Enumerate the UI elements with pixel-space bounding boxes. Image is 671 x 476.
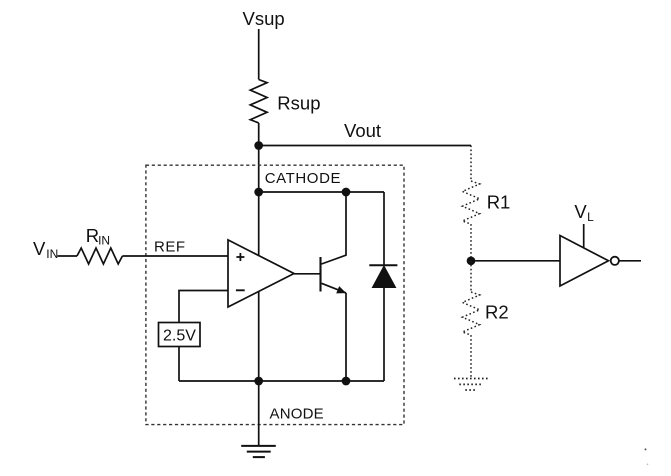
voltage reference 2.5V <box>159 323 201 347</box>
node collector junction <box>342 188 351 197</box>
resistor Rsup <box>250 80 267 123</box>
svg-text:ANODE: ANODE <box>270 405 324 422</box>
wire divider node to inverter input <box>471 260 560 262</box>
net label VIN <box>33 238 58 261</box>
svg-text:IN: IN <box>46 247 58 261</box>
svg-text:Vout: Vout <box>344 120 381 141</box>
wire divider node to R2 (dotted) <box>470 261 472 292</box>
svg-text:V: V <box>33 238 46 259</box>
resistor RIN <box>77 248 122 264</box>
wire VL to inverter <box>583 224 585 248</box>
svg-text:Vsup: Vsup <box>243 8 285 29</box>
wire 2.5V to anode rail <box>178 347 180 382</box>
ground <box>241 446 276 457</box>
svg-text:V: V <box>574 201 587 222</box>
wire VIN to RIN <box>58 255 78 257</box>
resistor R2 (dotted) <box>462 292 479 335</box>
svg-text:Rsup: Rsup <box>277 93 320 114</box>
label RIN <box>86 225 110 247</box>
speck artifact 2 <box>647 464 649 466</box>
wire inverting input <box>179 291 228 323</box>
wire anode to ground <box>258 381 260 446</box>
svg-text:CATHODE: CATHODE <box>265 170 341 187</box>
node anode junction <box>254 377 263 386</box>
ground (dotted) <box>454 379 490 391</box>
node emitter junction <box>342 377 351 386</box>
wire op-amp output to base <box>294 273 321 275</box>
wire diode top lead <box>383 192 385 265</box>
inverter U2 <box>560 236 619 287</box>
transistor Q1 <box>321 192 347 381</box>
svg-text:REF: REF <box>154 239 186 256</box>
node divider junction <box>467 256 476 265</box>
node cathode junction <box>254 188 263 197</box>
svg-text:R1: R1 <box>487 191 511 212</box>
diode D1 <box>369 265 397 381</box>
wire Vsup to Rsup <box>258 29 260 80</box>
wire inverter output <box>619 260 641 262</box>
wire anode bottom rail <box>179 380 384 382</box>
svg-text:IN: IN <box>98 234 110 248</box>
svg-text:L: L <box>587 210 594 224</box>
wire R2 to ground (dotted) <box>470 335 472 378</box>
node Vout junction <box>254 141 263 150</box>
svg-text:2.5V: 2.5V <box>163 328 196 345</box>
svg-text:R2: R2 <box>485 302 509 323</box>
wire RIN to REF input <box>122 255 228 257</box>
net label VL <box>574 201 594 224</box>
resistor R1 (dotted) <box>462 181 479 224</box>
wire cathode rail vertical <box>258 146 260 382</box>
wire R1 to divider node (dotted) <box>470 224 472 261</box>
wire Vout to R1 (dotted) <box>470 146 472 182</box>
op-amp U1 <box>228 240 294 307</box>
speck artifact 1 <box>645 448 647 450</box>
wire cathode top rail <box>259 191 384 193</box>
wire Vout horizontal <box>259 145 471 147</box>
wire Rsup to Vout node <box>258 123 260 146</box>
IC boundary dashed box <box>146 165 404 424</box>
